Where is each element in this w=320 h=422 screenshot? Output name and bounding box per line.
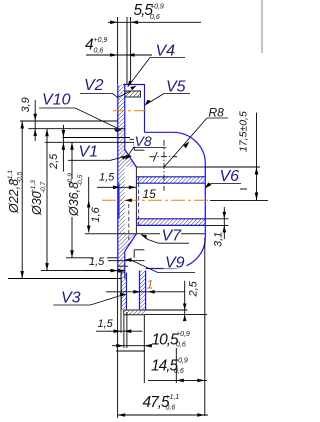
- svg-text:Ø22,8: Ø22,8: [7, 179, 21, 214]
- svg-text:+1,1: +1,1: [166, 394, 180, 401]
- svg-text:-0,7: -0,7: [40, 181, 47, 193]
- svg-text:+1,1: +1,1: [7, 170, 14, 183]
- svg-text:+1,3: +1,3: [30, 180, 37, 193]
- svg-text:V3: V3: [61, 290, 81, 307]
- svg-text:V1: V1: [79, 144, 99, 161]
- svg-text:0,6: 0,6: [176, 342, 186, 349]
- svg-text:-0,5: -0,5: [17, 171, 24, 183]
- svg-text:1,6: 1,6: [90, 206, 102, 222]
- svg-text:R8: R8: [209, 106, 225, 120]
- svg-text:3,9: 3,9: [20, 97, 32, 112]
- svg-text:V8: V8: [135, 133, 152, 149]
- svg-text:0,6: 0,6: [174, 368, 184, 375]
- svg-text:+0,9: +0,9: [150, 4, 164, 11]
- svg-text:V9: V9: [165, 255, 185, 272]
- svg-text:3,1: 3,1: [213, 232, 225, 247]
- svg-text:2,5: 2,5: [188, 280, 200, 297]
- svg-text:V7: V7: [162, 228, 183, 245]
- svg-text:V5: V5: [166, 79, 186, 96]
- svg-text:1,5: 1,5: [98, 318, 114, 330]
- svg-text:10,5: 10,5: [152, 332, 180, 349]
- svg-text:0,6: 0,6: [166, 405, 176, 412]
- svg-text:17,5±0,5: 17,5±0,5: [238, 111, 250, 152]
- svg-text:1,5: 1,5: [89, 256, 105, 268]
- svg-text:V4: V4: [156, 43, 176, 60]
- svg-text:1,5: 1,5: [99, 172, 115, 184]
- svg-text:V2: V2: [84, 77, 104, 94]
- svg-text:V6: V6: [220, 168, 240, 185]
- svg-text:Ø36,8: Ø36,8: [67, 182, 81, 217]
- svg-text:-0,5: -0,5: [77, 174, 84, 186]
- svg-text:Ø30: Ø30: [30, 191, 44, 216]
- svg-text:0,6: 0,6: [150, 14, 160, 21]
- svg-text:1: 1: [147, 278, 154, 292]
- svg-text:+0,9: +0,9: [94, 37, 108, 44]
- svg-text:+0,9: +0,9: [67, 173, 74, 186]
- svg-text:+0,9: +0,9: [176, 331, 190, 338]
- svg-text:2,5: 2,5: [48, 153, 60, 170]
- svg-text:0,6: 0,6: [94, 48, 104, 55]
- svg-text:15: 15: [143, 187, 157, 201]
- svg-text:+0,9: +0,9: [174, 358, 188, 365]
- svg-text:V10: V10: [42, 92, 71, 109]
